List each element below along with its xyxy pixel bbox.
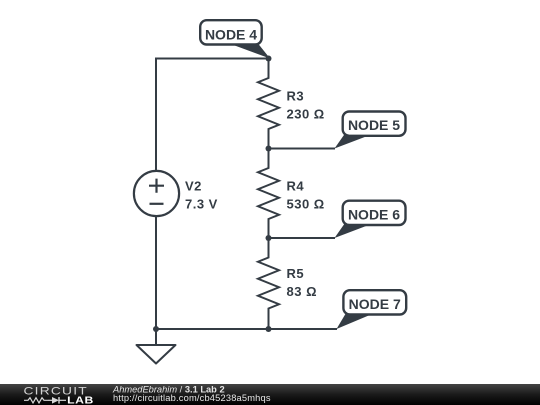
- svg-text:R4: R4: [287, 179, 305, 194]
- junction dot node 6: [266, 235, 272, 241]
- junction dot ground rail right: [266, 326, 272, 332]
- voltage source V2 7.3 V: [134, 171, 218, 216]
- svg-text:NODE 4: NODE 4: [205, 26, 257, 42]
- svg-text:LAB: LAB: [67, 395, 94, 405]
- node NODE 5 label: [335, 112, 406, 149]
- resistor R3 230 Ω: [258, 59, 325, 149]
- svg-text:83 Ω: 83 Ω: [287, 284, 318, 299]
- wire: node 6 stub: [269, 237, 336, 239]
- svg-text:V2: V2: [185, 179, 202, 194]
- svg-text:R5: R5: [287, 266, 305, 281]
- resistor R5 83 Ω: [258, 238, 317, 329]
- junction dot node 4: [266, 56, 272, 62]
- node NODE 7 label: [337, 290, 407, 329]
- junction dot node 5: [266, 146, 272, 152]
- logo resistor-diode icon: [24, 397, 66, 404]
- wire: top horizontal from left branch to node 4 junction: [156, 58, 269, 60]
- svg-text:http://circuitlab.com/cb45238a: http://circuitlab.com/cb45238a5mhqs: [113, 393, 271, 403]
- ground: [137, 329, 176, 364]
- wire: node 5 stub: [269, 148, 336, 150]
- wire: bottom horizontal rail: [156, 328, 337, 330]
- svg-text:NODE 5: NODE 5: [348, 117, 400, 133]
- wire: left vertical lower (V2 bottom to ground rail): [155, 216, 157, 329]
- footer bar: [0, 384, 540, 405]
- svg-text:230 Ω: 230 Ω: [287, 106, 325, 121]
- node NODE 4 label: [200, 20, 270, 58]
- node NODE 6 label: [335, 201, 406, 238]
- resistor R4 530 Ω: [258, 149, 325, 239]
- wire: left vertical upper (top corner to V2 top): [155, 58, 157, 172]
- svg-text:NODE 6: NODE 6: [348, 207, 400, 223]
- junction dot ground rail left: [153, 326, 159, 332]
- svg-text:NODE 7: NODE 7: [349, 296, 401, 312]
- svg-text:7.3 V: 7.3 V: [185, 197, 218, 212]
- svg-text:530 Ω: 530 Ω: [287, 196, 325, 211]
- svg-text:R3: R3: [287, 89, 305, 104]
